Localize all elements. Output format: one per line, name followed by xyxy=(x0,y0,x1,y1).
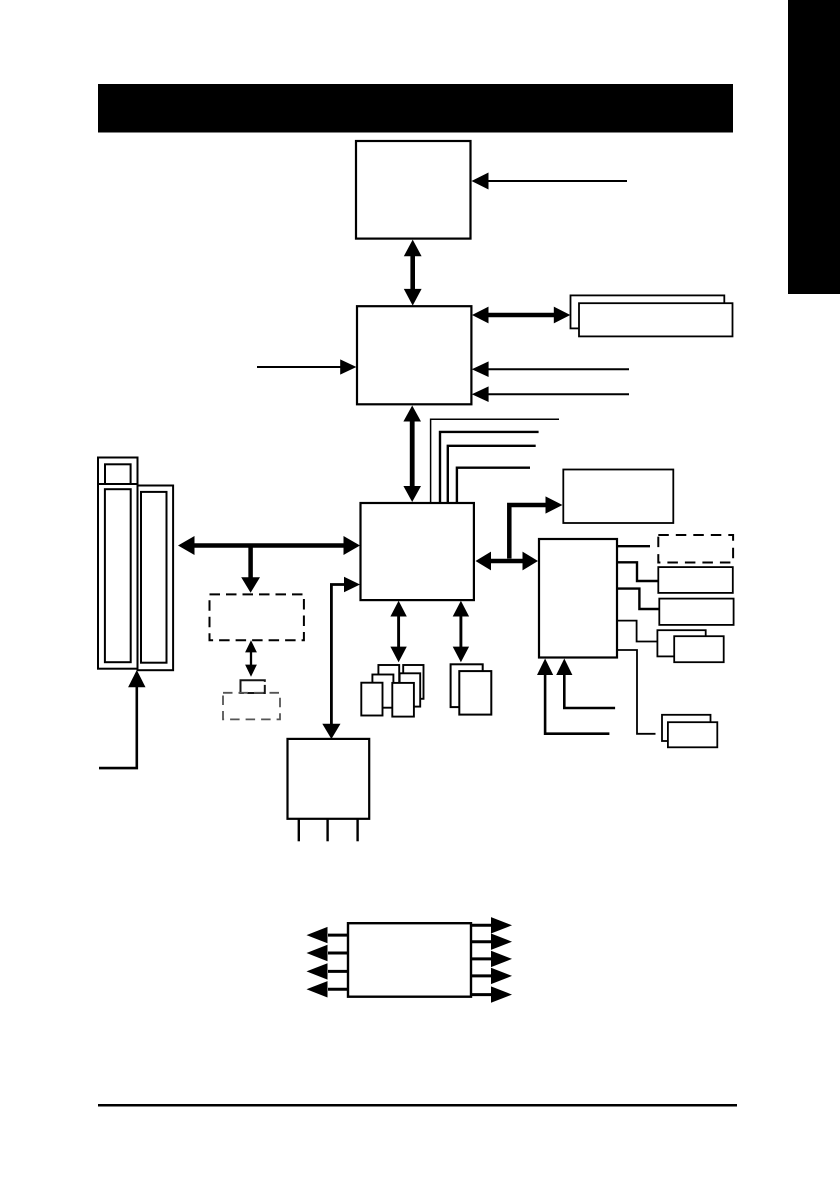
bus: PCI slots to south bridge (thick double arrow) xyxy=(178,536,360,555)
dual BIOS dashed box xyxy=(223,693,280,720)
wire: super I/O link a xyxy=(617,545,650,547)
wire: super I/O link b (Z) xyxy=(617,562,658,581)
wire: line into north bridge left xyxy=(257,366,342,368)
USB port rect group1 front-left xyxy=(361,683,382,716)
AGP slot divider xyxy=(98,483,138,485)
wire: clock line into CPU xyxy=(487,180,627,182)
bus: south bridge to USB group 1 (double arrow) xyxy=(390,601,406,663)
USB port rect group1 mid-right xyxy=(400,673,421,706)
CPU box xyxy=(356,141,471,239)
wire: branch down to BIOS (thick arrow) xyxy=(241,546,260,593)
game port box (front) xyxy=(668,722,717,747)
monitor right arrow 1 xyxy=(471,917,512,933)
dual BIOS chip box xyxy=(241,680,265,693)
COM port box xyxy=(658,567,733,593)
small double arrow BIOS to dual BIOS xyxy=(245,640,257,676)
bus: north bridge to south bridge (double arrow) xyxy=(403,406,421,503)
arrowhead into NB left edge xyxy=(340,359,356,374)
hardware monitor box xyxy=(348,923,471,997)
wire: super I/O link d (Z) xyxy=(617,621,657,642)
bus: CPU to north bridge (double arrow) xyxy=(404,240,422,306)
monitor left arrow 1 xyxy=(307,927,349,943)
USB port rect group1 mid-left xyxy=(372,675,393,708)
USB port rect group1 back-right xyxy=(403,665,423,699)
wire: fan line 3 xyxy=(448,446,536,503)
footer rule xyxy=(98,1104,737,1107)
AGP slot outer box xyxy=(98,458,138,669)
PCI slot inner rect xyxy=(141,492,167,663)
arrowhead into CPU right edge xyxy=(472,173,489,190)
PCI slot outer box xyxy=(138,486,174,671)
audio pin 1 xyxy=(298,819,300,842)
BIOS dashed box xyxy=(210,594,304,640)
wire: super I/O link c (Z) xyxy=(617,589,659,609)
wire: lower line into north bridge right xyxy=(488,393,629,395)
AGP slot inner top rect xyxy=(105,464,131,484)
monitor right arrow 3 xyxy=(471,951,512,967)
USB port rect group1 front-right xyxy=(392,683,414,717)
monitor left arrow 4 xyxy=(307,981,349,997)
chapter title bar xyxy=(98,84,733,133)
bus: south bridge to super I/O (double arrow) xyxy=(476,552,539,571)
monitor left arrow 3 xyxy=(307,963,349,979)
USB port rect group2 back xyxy=(451,664,483,707)
wire: thick L-arrow south bridge to LAN xyxy=(509,496,562,558)
wire: fan line 2 xyxy=(440,432,539,503)
AGP slot inner tall rect xyxy=(105,489,131,662)
wire: arrow up into super I/O B xyxy=(556,659,615,709)
wire: upper line into north bridge right xyxy=(488,368,629,370)
audio codec box xyxy=(288,739,370,819)
game port box (back) xyxy=(662,715,711,741)
IR dashed box xyxy=(658,535,733,563)
USB port rect group1 back-left xyxy=(378,665,399,699)
memory DIMM box (back) xyxy=(571,295,725,328)
wire: fan line 4 xyxy=(457,468,530,503)
USB port rect group2 front xyxy=(459,671,491,715)
bus: north bridge to memory (double arrow) xyxy=(472,307,570,324)
super I/O box xyxy=(539,539,617,658)
north bridge box xyxy=(357,306,471,404)
bus: south bridge to USB group 2 (double arrow) xyxy=(453,601,469,663)
south bridge box xyxy=(361,503,474,600)
memory DIMM box (front) xyxy=(579,303,733,336)
PS/2 ports box (back) xyxy=(657,630,705,656)
wire: arrow up into slots from bottom left xyxy=(99,670,146,768)
monitor right arrow 5 xyxy=(471,986,512,1002)
audio pin 2 xyxy=(326,819,328,842)
wire: arrow up into super I/O A xyxy=(537,659,609,734)
monitor right arrow 2 xyxy=(471,934,512,950)
LPT port box xyxy=(659,599,733,625)
wire: fan line 1 from south bridge top xyxy=(431,419,559,503)
LAN box xyxy=(563,470,673,524)
PS/2 ports box (front) xyxy=(674,636,724,662)
monitor left arrow 2 xyxy=(307,945,349,961)
audio pin 3 xyxy=(356,819,358,842)
wire: super I/O link e (down to game port) xyxy=(617,650,656,734)
side edge tab (English) xyxy=(788,0,840,294)
monitor right arrow 4 xyxy=(471,968,512,984)
wire: audio L-link (double headed) xyxy=(322,577,360,739)
